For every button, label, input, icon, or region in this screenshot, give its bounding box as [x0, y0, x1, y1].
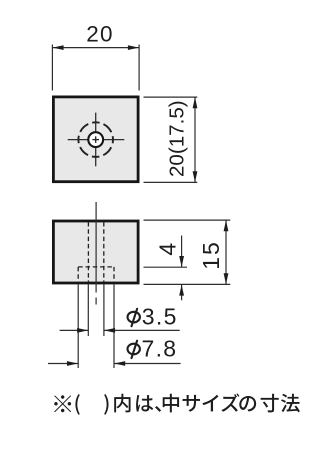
svg-text:4: 4 — [155, 243, 181, 256]
svg-text:20(17.5): 20(17.5) — [166, 100, 189, 177]
svg-text:20: 20 — [86, 22, 113, 47]
svg-text:15: 15 — [198, 240, 224, 270]
svg-text:7.8: 7.8 — [142, 336, 178, 362]
svg-text:3.5: 3.5 — [142, 304, 178, 330]
